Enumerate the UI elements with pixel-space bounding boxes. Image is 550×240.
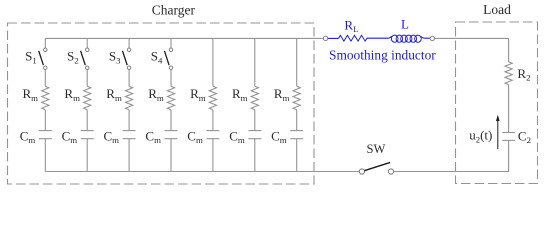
- resistor Rm (branch 1): [42, 86, 49, 109]
- wire terminal to RL: [328, 37, 339, 39]
- wire resistor to capacitor (branch 3): [128, 110, 130, 131]
- top bus wire: [45, 37, 323, 39]
- wire branch 5 drop: [212, 38, 214, 86]
- svg-text:R2: R2: [517, 66, 530, 83]
- switch S2: [81, 38, 89, 86]
- svg-text:S3: S3: [109, 49, 121, 66]
- svg-text:Load: Load: [483, 2, 511, 17]
- svg-text:Cm: Cm: [187, 128, 203, 145]
- svg-text:Cm: Cm: [145, 128, 161, 145]
- wire branch 6 drop: [254, 38, 256, 86]
- svg-text:RL: RL: [344, 17, 358, 34]
- wire resistor to capacitor (branch 1): [44, 110, 46, 131]
- svg-text:Rm: Rm: [232, 86, 248, 103]
- wire resistor to capacitor (branch 5): [212, 110, 214, 131]
- wire resistor to capacitor (branch 7): [296, 110, 298, 131]
- svg-text:Charger: Charger: [152, 2, 196, 17]
- wire capacitor to bottom bus (branch 2): [86, 139, 88, 172]
- wire L to terminal: [424, 37, 430, 39]
- capacitor Cm (branch 5): [206, 131, 219, 139]
- wire capacitor to bottom bus (branch 6): [254, 139, 256, 172]
- wire R2 to C2: [508, 85, 510, 133]
- capacitor Cm (branch 2): [81, 131, 94, 139]
- resistor Rm (branch 2): [84, 86, 91, 109]
- wire resistor to capacitor (branch 6): [254, 110, 256, 131]
- switch S3: [123, 38, 131, 86]
- svg-text:Smoothing inductor: Smoothing inductor: [329, 47, 436, 62]
- wire resistor to capacitor (branch 4): [170, 110, 172, 131]
- svg-text:S4: S4: [151, 49, 163, 66]
- svg-text:Rm: Rm: [64, 86, 80, 103]
- wire capacitor to bottom bus (branch 1): [44, 139, 46, 172]
- wire capacitor to bottom bus (branch 5): [212, 139, 214, 172]
- resistor Rm (branch 3): [126, 86, 133, 109]
- capacitor C2: [502, 133, 515, 141]
- terminal node right: [430, 36, 434, 40]
- svg-text:Cm: Cm: [104, 128, 120, 145]
- bottom bus wire (charger to SW): [45, 171, 359, 173]
- svg-text:SW: SW: [367, 142, 386, 156]
- capacitor Cm (branch 7): [290, 131, 303, 139]
- resistor Rm (branch 7): [293, 86, 300, 109]
- wire capacitor to bottom bus (branch 3): [128, 139, 130, 172]
- arrow u2(t): [496, 115, 500, 149]
- capacitor Cm (branch 1): [39, 131, 52, 139]
- capacitor Cm (branch 4): [165, 131, 178, 139]
- svg-text:Cm: Cm: [271, 128, 287, 145]
- svg-text:u2(t): u2(t): [469, 128, 492, 145]
- resistor RL: [339, 35, 367, 41]
- switch S4: [164, 38, 172, 86]
- svg-text:Cm: Cm: [229, 128, 245, 145]
- inductor L: [388, 35, 424, 42]
- switch S1: [39, 38, 47, 86]
- switch SW: [359, 162, 393, 174]
- svg-text:Rm: Rm: [106, 86, 122, 103]
- charger enclosure box: [8, 23, 315, 184]
- wire capacitor to bottom bus (branch 4): [170, 139, 172, 172]
- capacitor Cm (branch 3): [123, 131, 136, 139]
- svg-text:C2: C2: [518, 128, 531, 145]
- capacitor Cm (branch 6): [248, 131, 261, 139]
- wire capacitor to bottom bus (branch 7): [296, 139, 298, 172]
- wire resistor to capacitor (branch 2): [86, 110, 88, 131]
- load enclosure box: [456, 22, 538, 184]
- svg-text:S1: S1: [25, 49, 37, 66]
- svg-text:Rm: Rm: [148, 86, 164, 103]
- svg-text:Rm: Rm: [190, 86, 206, 103]
- resistor Rm (branch 4): [167, 86, 174, 109]
- svg-text:Rm: Rm: [274, 86, 290, 103]
- svg-text:Rm: Rm: [23, 86, 39, 103]
- svg-text:Cm: Cm: [20, 128, 36, 145]
- resistor R2: [505, 62, 512, 85]
- wire RL to L: [367, 37, 388, 39]
- wire C2 to bottom bus: [394, 140, 509, 171]
- terminal node left: [323, 36, 327, 40]
- svg-text:S2: S2: [67, 49, 79, 66]
- resistor Rm (branch 6): [251, 86, 258, 109]
- svg-text:L: L: [401, 17, 409, 32]
- svg-text:Cm: Cm: [62, 128, 78, 145]
- wire terminal to load (top): [435, 38, 509, 62]
- resistor Rm (branch 5): [209, 86, 216, 109]
- wire branch 7 drop: [296, 38, 298, 86]
